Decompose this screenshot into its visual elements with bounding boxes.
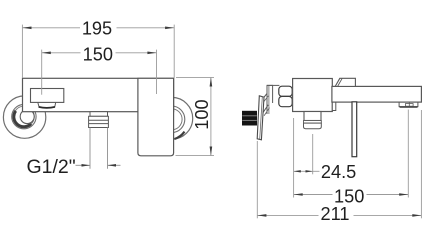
spout aerator dark bottom arc: [39, 106, 55, 109]
eccentric union bar: [267, 85, 273, 114]
disc inner face line: [260, 97, 263, 139]
collar inner line 1: [89, 119, 109, 121]
spout aerator trapezoid: [38, 102, 56, 106]
dim 150 ext left: [41, 50, 43, 95]
dim 24.5 line + arrows: [294, 170, 313, 172]
G1/2 extension line right: [107, 128, 109, 169]
left escutcheon inner rim circle: [14, 106, 35, 127]
faucet body (front view): [23, 78, 174, 111]
dim 100 vertical line: [210, 77, 212, 155]
handle block (front view): [138, 78, 174, 156]
dim 24.5 ext line left (shared with 150): [293, 118, 295, 198]
G1/2 leader arrow right: [108, 164, 121, 166]
lever handle hanging down: [352, 102, 357, 157]
spout tip aerator: [399, 102, 418, 106]
union top line to nut: [267, 84, 279, 86]
left escutcheon thick sleeve arc: [14, 111, 31, 127]
shower outlet collar: [89, 116, 109, 127]
spout arm: [332, 86, 422, 102]
threaded nipple (black): [242, 111, 257, 126]
dim 100 ext top: [176, 76, 214, 78]
step below spout arm: [332, 102, 336, 111]
outlet band: [304, 121, 322, 124]
eccentric connector diagonal upper: [261, 94, 267, 101]
right escutcheon inner circle: [158, 106, 185, 133]
right escutcheon thin inner arc: [161, 109, 182, 130]
main body (side view): [293, 79, 333, 112]
aerator insert: [405, 104, 413, 107]
shower outlet rod below body: [90, 112, 108, 117]
left escutcheon outer circle: [3, 96, 45, 138]
svg-text:211: 211: [321, 204, 350, 224]
dim 150 ext right: [156, 50, 158, 94]
dim 150 (bottom) ext right: [407, 110, 409, 198]
right escutcheon outer circle: [151, 97, 193, 139]
dim 100 ext bottom: [176, 155, 215, 157]
shower outlet below body: [304, 112, 321, 121]
dim 24.5 ext line right: [312, 134, 314, 174]
dim 195 line: [22, 27, 80, 29]
right escutcheon dark bottom arc: [175, 132, 185, 139]
dim 150 line (top): [42, 52, 81, 54]
eccentric connector diagonal lower: [263, 105, 269, 113]
wall escutcheon disc (side profile): [257, 96, 264, 140]
left escutcheon inner circle: [12, 104, 36, 128]
dim 211 line: [257, 214, 318, 216]
svg-text:24.5: 24.5: [321, 162, 356, 182]
cap inner slant line: [338, 78, 343, 86]
dim 195 ext right: [173, 25, 175, 78]
hex nut upper: [279, 86, 292, 96]
G1/2 extension line left: [89, 128, 91, 169]
cap trapezoid on top: [335, 78, 355, 86]
outlet aerator: [304, 123, 322, 129]
svg-text:150: 150: [83, 44, 113, 64]
svg-text:G1/2": G1/2": [27, 156, 76, 178]
dim 150 line: [294, 194, 333, 196]
dim 211 ext left: [256, 141, 258, 218]
svg-text:195: 195: [82, 19, 112, 39]
dim 211 ext right: [420, 110, 422, 218]
spout box on body: [31, 89, 64, 103]
union inner vertical line: [268, 85, 270, 114]
hex nut lower: [279, 96, 292, 106]
svg-text:100: 100: [192, 99, 212, 129]
dim 195 ext left: [21, 25, 23, 78]
left escutcheon small circle: [20, 110, 34, 124]
collar inner line 2: [89, 123, 109, 125]
G1/2 leader arrow left: [76, 164, 90, 166]
